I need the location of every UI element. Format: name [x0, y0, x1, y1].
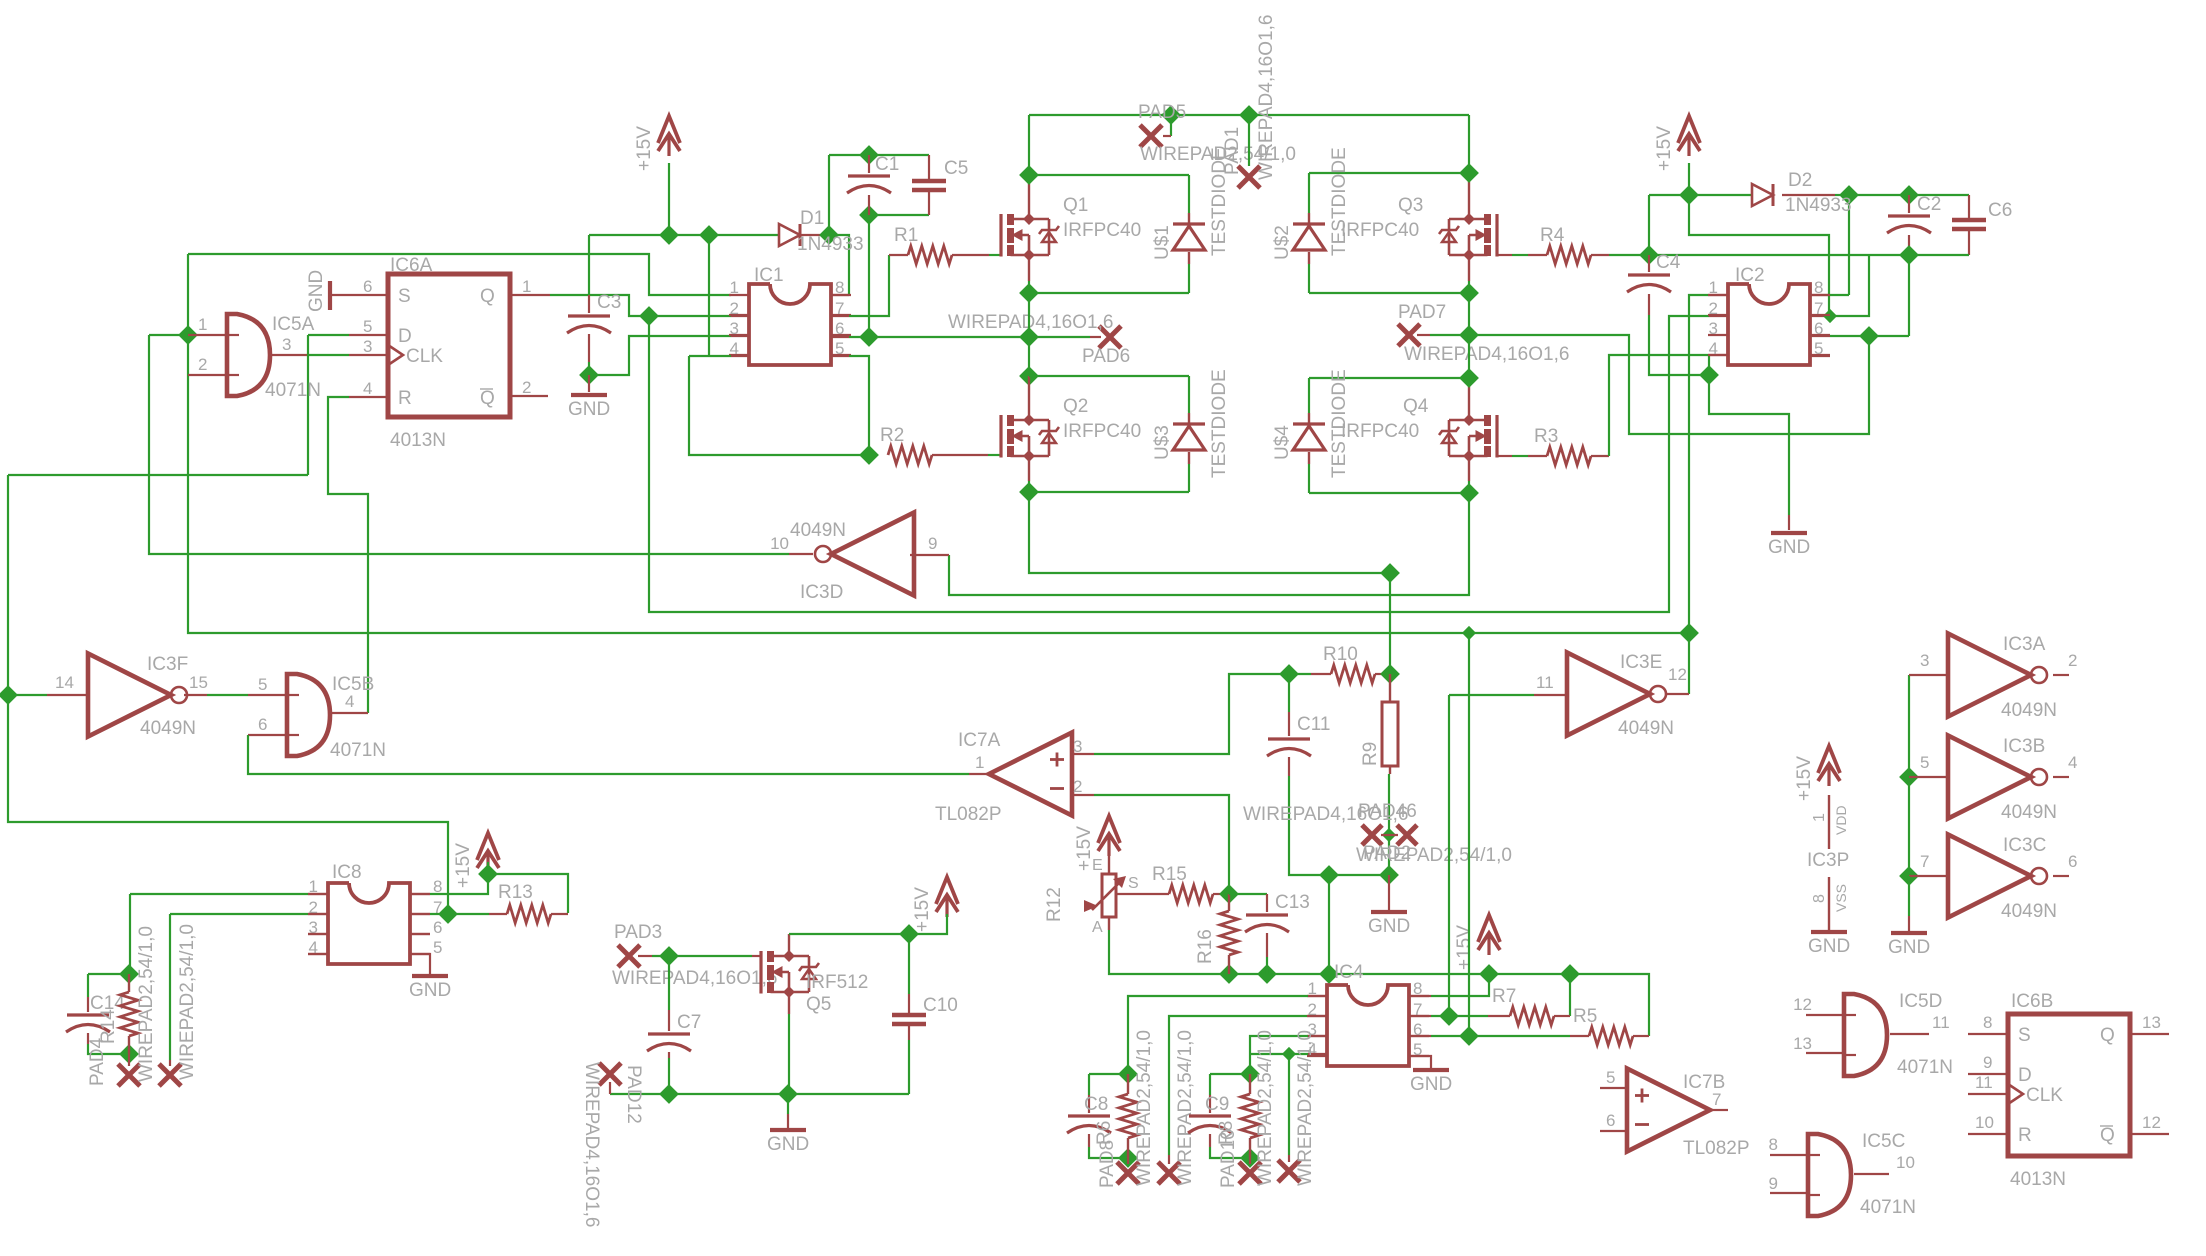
junction (1289,1054) [1282, 1047, 1296, 1061]
label PAD46 [1358, 801, 1417, 822]
svg-text:8: 8 [1769, 1135, 1778, 1154]
pin 8 (IC2) [1814, 278, 1823, 297]
svg-text:Q: Q [2100, 1125, 2115, 1146]
wire R13 right lead [551, 913, 568, 915]
pad PAD12 X [599, 1063, 621, 1085]
pin 1 (IC5A) [198, 315, 207, 334]
capacitor C10 [892, 934, 926, 1094]
junction (1289,674) [1279, 664, 1299, 684]
wire IC8 pin6 stub [410, 933, 430, 935]
label WIREPAD2,54/1,0 (PAD4) [136, 926, 157, 1082]
pin 8 (IC1) [835, 278, 844, 297]
wire IC3F input stub [8, 694, 88, 696]
wire net N1 top-left bus to IC1 pin1 [188, 254, 731, 295]
pin 14 (IC3F) [55, 673, 74, 692]
svg-text:C8: C8 [1084, 1094, 1108, 1115]
svg-text:2: 2 [522, 378, 531, 397]
junction (1229,894) [1219, 884, 1239, 904]
svg-text:IRFPC40: IRFPC40 [1063, 220, 1141, 241]
resistor R7 [1510, 1007, 1554, 1025]
pin 6 (IC6A) [363, 277, 372, 296]
wire IC5B output stub [330, 712, 368, 714]
junction (1709,375) [1699, 365, 1719, 385]
label WIREPAD2,54/1,0 (PAD5) [1140, 144, 1296, 165]
pin 13 (IC5D) [1793, 1034, 1812, 1053]
IC IC8 (DIP8) [308, 883, 430, 964]
svg-text:5: 5 [1920, 753, 1929, 772]
wire IC6B pin12 stub [2130, 1133, 2169, 1135]
svg-text:IC6A: IC6A [390, 255, 433, 276]
svg-text:IC3P: IC3P [1807, 850, 1849, 871]
pin 2 (IC2) [1709, 299, 1718, 318]
svg-text:Q: Q [2100, 1025, 2115, 1046]
svg-text:S: S [1128, 875, 1139, 892]
svg-text:PAD5: PAD5 [1138, 102, 1186, 123]
label TESTDIODE (U$3) [1209, 369, 1230, 478]
wire IC6A S pin to GND [331, 294, 388, 296]
svg-text:C3: C3 [597, 292, 621, 313]
svg-text:5: 5 [433, 938, 442, 957]
label Q4 [1403, 396, 1429, 417]
pin 5 (IC5B) [258, 675, 267, 694]
pin 5 (IC7B) [1606, 1068, 1615, 1087]
pad PAD6 X [1099, 326, 1121, 348]
wire Q5 bottom bus [610, 1093, 909, 1095]
resistor R9 (box) [1382, 674, 1398, 774]
svg-text:S: S [2018, 1025, 2031, 1046]
pin 2 (IC5A) [198, 355, 207, 374]
svg-text:2: 2 [1709, 299, 1718, 318]
junction (129,974) [119, 964, 139, 984]
svg-text:IC5C: IC5C [1862, 1131, 1905, 1152]
wire IC5A pin2 stub [188, 374, 227, 376]
junction (8,695) [0, 685, 18, 705]
pin 1 (IC3P) [1811, 813, 1828, 822]
wire R12 bottom to 974 line [1109, 930, 1489, 974]
wire R4 line to C2/C6 bottoms [1591, 254, 1969, 256]
svg-text:2: 2 [1073, 777, 1082, 796]
label C7 [677, 1012, 701, 1033]
junction (669,1094) [659, 1084, 679, 1104]
label WIREPAD2,54/1,0 (c) [1255, 1030, 1276, 1186]
label PAD12 [623, 1065, 644, 1124]
label 4013N (IC6A) [390, 430, 446, 451]
label WIREPAD2,54/1,0 (pad b) [177, 924, 198, 1080]
wire R10 leads [1289, 673, 1390, 675]
svg-text:4071N: 4071N [330, 740, 386, 761]
junction (1649,255) [1639, 245, 1659, 265]
wire C11/R9 bottoms to GND node [1289, 774, 1389, 974]
junction (188,335) [178, 325, 198, 345]
label R6 [1094, 1121, 1115, 1145]
pad X (129,1075) [118, 1064, 140, 1086]
wire +15V/D1 bus [589, 155, 929, 356]
wire IC8 pin2 to pad [170, 914, 328, 1066]
junction (1229,974) [1219, 964, 1239, 984]
pin name Q (IC6B) [2100, 1025, 2115, 1046]
wire +15V/D2 bus [1649, 163, 1969, 295]
svg-text:Q5: Q5 [806, 994, 831, 1015]
label C8 [1084, 1094, 1108, 1115]
ground GND (R9 area) [1368, 912, 1410, 937]
pin 6 (IC3C) [2068, 852, 2077, 871]
wire C3 bottom net [589, 336, 749, 375]
resistor R16 (vertical) [1220, 894, 1238, 974]
label IC3P [1807, 850, 1849, 871]
wire IC8 pin8 to +15V [410, 862, 568, 913]
resistor R4 [1547, 246, 1591, 264]
label A (R12) [1092, 919, 1103, 936]
label C4 [1656, 252, 1681, 273]
power +15V (near D1) [634, 116, 680, 171]
svg-text:14: 14 [55, 673, 74, 692]
wire PAD1 stub [1248, 115, 1250, 166]
pin 13 (IC6B) [2142, 1013, 2161, 1032]
resistor R5 [1589, 1027, 1633, 1045]
wire IC4 pin1 to C8/R6 [1128, 996, 1327, 1074]
op-amp IC7A TL082P [989, 733, 1072, 816]
svg-text:3: 3 [1709, 319, 1718, 338]
pin 8 (IC8) [433, 877, 442, 896]
pin name S (IC6A) [398, 286, 411, 307]
svg-text:IC2: IC2 [1735, 265, 1765, 286]
svg-text:TESTDIODE: TESTDIODE [1329, 369, 1350, 478]
svg-text:C10: C10 [923, 995, 958, 1016]
svg-text:3: 3 [730, 319, 739, 338]
label Q3 [1398, 195, 1423, 216]
svg-text:TESTDIODE: TESTDIODE [1209, 369, 1230, 478]
label C6 [1988, 200, 2012, 221]
svg-text:R1: R1 [894, 225, 918, 246]
svg-text:PAD4: PAD4 [87, 1037, 108, 1086]
label Q5 [806, 994, 831, 1015]
capacitor C14 [66, 974, 129, 1054]
junction (1267,974) [1257, 964, 1277, 984]
svg-text:4071N: 4071N [1860, 1197, 1916, 1218]
pin 5 (IC6A) [363, 317, 372, 336]
pin name VSS (IC3P) [1833, 884, 1849, 912]
IC IC2 (555 DIP8) [1708, 284, 1830, 365]
pad X (1128,1173) [1117, 1162, 1139, 1184]
label PAD8 [1097, 1140, 1118, 1188]
junction (709,235) [699, 225, 719, 245]
wire IC6B pin9 stub [1968, 1073, 2008, 1075]
junction (589,375) [579, 365, 599, 385]
label R12 [1044, 887, 1065, 922]
pin name CLK (IC6A) [406, 346, 443, 367]
pin 2 (IC8) [309, 898, 318, 917]
svg-text:IC7A: IC7A [958, 730, 1001, 751]
pin 4 (IC4) [1308, 1040, 1317, 1059]
label TESTDIODE (U$4) [1329, 369, 1350, 478]
pad PAD1 X [1238, 166, 1260, 188]
svg-text:5: 5 [363, 317, 372, 336]
label 4071N (IC5A) [265, 380, 321, 401]
label TESTDIODE (U$2) [1329, 147, 1350, 256]
label C2 [1917, 194, 1941, 215]
label U$1 [1152, 225, 1173, 260]
svg-text:PAD10: PAD10 [1218, 1129, 1239, 1188]
svg-text:12: 12 [1668, 665, 1687, 684]
transistor Q1 IRFPC40 [1001, 213, 1059, 261]
svg-text:PAD6: PAD6 [1082, 346, 1130, 367]
wire Q3 bus [1309, 115, 1469, 335]
pin 1 (IC8) [309, 877, 318, 896]
pin VDD line (IC3P) [1828, 795, 1830, 849]
wire IC3 input chain [1908, 675, 1910, 876]
gate IC5C 4071N [1808, 1134, 1851, 1216]
wire IC7A output stub [969, 773, 989, 775]
svg-text:11: 11 [1536, 673, 1554, 692]
label IC3A [2003, 634, 2046, 655]
svg-text:IRF512: IRF512 [806, 972, 868, 993]
pin name S (IC6B) [2018, 1025, 2031, 1046]
diode U$3 TESTDIODE [1173, 413, 1205, 464]
svg-text:15: 15 [189, 673, 208, 692]
flip-flop IC6A 4013N body [388, 274, 510, 417]
svg-text:R7: R7 [1492, 986, 1516, 1007]
label R5 [1573, 1006, 1597, 1027]
label 4013N (IC6B) [2010, 1169, 2066, 1190]
svg-text:4049N: 4049N [790, 520, 846, 541]
capacitor C6 [1952, 195, 1986, 255]
wire IC7B pin5 stub [1600, 1087, 1627, 1089]
pin name R (IC6A) [398, 388, 412, 409]
wire IC4 pin8 to +15V node [1411, 974, 1489, 996]
svg-text:7: 7 [1712, 1090, 1721, 1109]
label IC4 [1334, 962, 1364, 983]
label IRFPC40 (Q2) [1063, 421, 1141, 442]
junction (869,215) [859, 205, 879, 225]
wire R14 pad stub [128, 1054, 130, 1066]
wire IC6B pin10 stub [1968, 1133, 2008, 1135]
wire IC5C pin8 stub [1770, 1154, 1808, 1156]
svg-text:PAD3: PAD3 [614, 922, 662, 943]
svg-text:R15: R15 [1152, 864, 1187, 885]
wire IC8 pin1 to R14/C14 [130, 894, 328, 974]
pad X (170,1075) [159, 1064, 181, 1086]
pin 6 (IC7B) [1606, 1111, 1615, 1130]
resistor R1 [908, 246, 952, 264]
pin name Qbar (IC6A) [480, 388, 495, 409]
capacitor C3 [567, 295, 611, 362]
svg-text:10: 10 [1975, 1113, 1994, 1132]
pin 9 (IC3D) [928, 534, 937, 553]
wire GND stem (Q5) [787, 1094, 789, 1128]
wire R8 pad stub [1249, 1158, 1251, 1164]
svg-text:D: D [2018, 1065, 2032, 1086]
pin 12 (IC6B) [2142, 1113, 2161, 1132]
svg-text:4013N: 4013N [2010, 1169, 2066, 1190]
label U$3 [1152, 425, 1173, 460]
pad PAD5 X [1140, 125, 1162, 147]
junction (1390,573) [1380, 563, 1400, 583]
wire IC5D output stub [1890, 1033, 1929, 1035]
svg-text:1: 1 [1811, 813, 1828, 822]
svg-text:10: 10 [1896, 1153, 1915, 1172]
svg-text:+15V: +15V [1654, 126, 1675, 171]
junction (1909,777) [1899, 767, 1919, 787]
svg-text:C7: C7 [677, 1012, 701, 1033]
wire IC4 pin7 to R7 [1411, 1015, 1510, 1017]
pin 6 (IC2) [1814, 319, 1823, 338]
pin 9 (IC6B) [1983, 1053, 1992, 1072]
junction (1909,255) [1899, 245, 1919, 265]
junction (1171,115) [1161, 105, 1181, 125]
wire Q3 gate to R4 [1497, 254, 1547, 256]
junction (1390,674) [1380, 664, 1400, 684]
svg-text:4049N: 4049N [2001, 700, 2057, 721]
svg-text:WIREPAD4,16O1,6: WIREPAD4,16O1,6 [948, 312, 1113, 333]
resistor R15 [1169, 885, 1213, 903]
svg-text:IC5D: IC5D [1899, 991, 1942, 1012]
svg-text:WIREPAD4,16O1,6: WIREPAD4,16O1,6 [581, 1062, 602, 1227]
svg-text:4: 4 [2068, 753, 2077, 772]
svg-text:IC1: IC1 [754, 265, 784, 286]
svg-text:VSS: VSS [1833, 884, 1849, 912]
svg-text:R4: R4 [1540, 225, 1565, 246]
label IC3D [800, 582, 843, 603]
junction (1489,974) [1479, 964, 1499, 984]
wire Q4 gate to R3 [1497, 455, 1547, 457]
transistor Q4 IRFPC40 [1439, 414, 1497, 462]
inverter IC3E 4049N [1567, 653, 1666, 736]
junction (1909,195) [1899, 185, 1919, 205]
capacitor C4 [1627, 255, 1671, 315]
svg-text:IC6B: IC6B [2011, 991, 2053, 1012]
wire IC1 pin6 line to PAD6 [830, 336, 1101, 338]
junction (1469,493) [1459, 483, 1479, 503]
pin 15 (IC3F) [189, 673, 208, 692]
capacitor C7 [647, 956, 691, 1094]
gate IC5B 4071N [287, 674, 330, 756]
pin 3 (IC8) [309, 918, 318, 937]
svg-text:3: 3 [282, 335, 291, 354]
resistor R6 (vertical) [1119, 1074, 1137, 1158]
svg-text:R5: R5 [1573, 1006, 1597, 1027]
pin 7 (IC4) [1413, 1000, 1422, 1019]
ground GND (IC8) [409, 976, 451, 1001]
label IC5A [272, 314, 315, 335]
wire Q5 source down [788, 992, 790, 1094]
svg-text:12: 12 [1793, 995, 1812, 1014]
wire IC7A pin3 to R10/C11 [1070, 674, 1289, 754]
wire IC8 pin7 to R13 [410, 913, 507, 915]
svg-text:WIREPAD4,16O1,6: WIREPAD4,16O1,6 [1256, 15, 1277, 180]
label C5 [944, 158, 968, 179]
svg-text:WIREPAD2,54/1,0: WIREPAD2,54/1,0 [1255, 1030, 1276, 1186]
svg-text:7: 7 [1920, 852, 1929, 871]
junction (1029,337) [1019, 327, 1039, 347]
label IC6B [2011, 991, 2053, 1012]
svg-text:VDD: VDD [1833, 805, 1849, 835]
svg-text:R3: R3 [1534, 426, 1558, 447]
wire IC3B output stub [2053, 776, 2069, 778]
resistor R8 (vertical) [1241, 1074, 1259, 1158]
pin 2 (IC6A) [522, 378, 531, 397]
resistor R2 [888, 446, 932, 464]
wire IC6A Qbar stub [508, 395, 548, 397]
svg-text:D: D [398, 326, 412, 347]
svg-text:4049N: 4049N [2001, 802, 2057, 823]
svg-text:GND: GND [306, 270, 327, 312]
junction (1849,195) [1839, 185, 1859, 205]
svg-text:3: 3 [363, 337, 372, 356]
pad X (1250,1173) [1239, 1162, 1261, 1184]
junction (829,235) [819, 225, 839, 245]
svg-text:1N4933: 1N4933 [1785, 195, 1852, 216]
junction (1329,974) [1319, 964, 1339, 984]
IC IC1 (555 DIP8) [729, 284, 851, 365]
svg-text:Q1: Q1 [1063, 195, 1088, 216]
svg-text:IRFPC40: IRFPC40 [1063, 421, 1141, 442]
svg-text:IC4: IC4 [1334, 962, 1364, 983]
flip-flop IC6B 4013N body [2008, 1014, 2130, 1156]
svg-text:13: 13 [1793, 1034, 1812, 1053]
pin name D (IC6B) [2018, 1065, 2032, 1086]
svg-text:PAD1: PAD1 [1222, 127, 1243, 175]
ground GND (IC2) [1768, 533, 1810, 558]
wire IC3B input stub [1909, 776, 1948, 778]
pad X (IC4 pin2) [1158, 1162, 1180, 1184]
label PAD10 [1218, 1129, 1239, 1188]
svg-text:R10: R10 [1323, 644, 1358, 665]
label PAD4 [87, 1037, 108, 1086]
svg-text:Q3: Q3 [1398, 195, 1423, 216]
pin 7 (IC3C) [1920, 852, 1929, 871]
label PAD2 [1363, 843, 1411, 864]
label R13 [498, 882, 533, 903]
wire PAD7 line to IC2 pin6 [1417, 255, 1909, 434]
svg-text:R16: R16 [1195, 929, 1216, 964]
diode U$2 TESTDIODE [1293, 213, 1325, 264]
label TL082P (IC7A) [935, 804, 1002, 825]
pin 1 (IC7A) [975, 753, 984, 772]
svg-text:4: 4 [363, 379, 372, 398]
svg-text:6: 6 [258, 715, 267, 734]
svg-text:+15V: +15V [912, 887, 933, 932]
pin 5 (IC3B) [1920, 753, 1929, 772]
pin name Qbar (IC6B) [2100, 1125, 2115, 1146]
wire R15 right lead [1213, 893, 1229, 895]
wire IC2 pin7 to R4 line [1811, 255, 1869, 316]
ground GND (C3) [568, 395, 610, 420]
svg-text:U$2: U$2 [1272, 225, 1293, 260]
label 4049N (IC3B) [2001, 802, 2057, 823]
label 4049N (IC3F) [140, 718, 196, 739]
wire R12 wiper to R15 [1116, 893, 1169, 895]
svg-text:11: 11 [1932, 1013, 1950, 1032]
pin 9 (IC5C) [1769, 1174, 1778, 1193]
svg-text:IC3F: IC3F [147, 654, 188, 675]
inverter IC3A 4049N [1948, 634, 2047, 717]
svg-text:+15V: +15V [453, 843, 474, 888]
wire +15V to IC2 pin7 feed [1689, 195, 1829, 316]
svg-text:4071N: 4071N [265, 380, 321, 401]
svg-text:C11: C11 [1297, 714, 1330, 735]
svg-text:4013N: 4013N [390, 430, 446, 451]
wire IC8 pin4 stub [308, 953, 328, 955]
power +15V (IC8) [453, 833, 499, 888]
pad X (1407,835) [1397, 825, 1417, 845]
gate IC5D 4071N [1844, 994, 1887, 1076]
label R7 [1492, 986, 1516, 1007]
pin 8 (IC3P) [1811, 894, 1828, 903]
label WIREPAD2,54/1,0 (d) [1295, 1030, 1316, 1186]
wire IC8 pin3 stub [308, 933, 328, 935]
junction (1250,1158) [1240, 1148, 1260, 1168]
svg-text:11: 11 [1975, 1073, 1993, 1092]
